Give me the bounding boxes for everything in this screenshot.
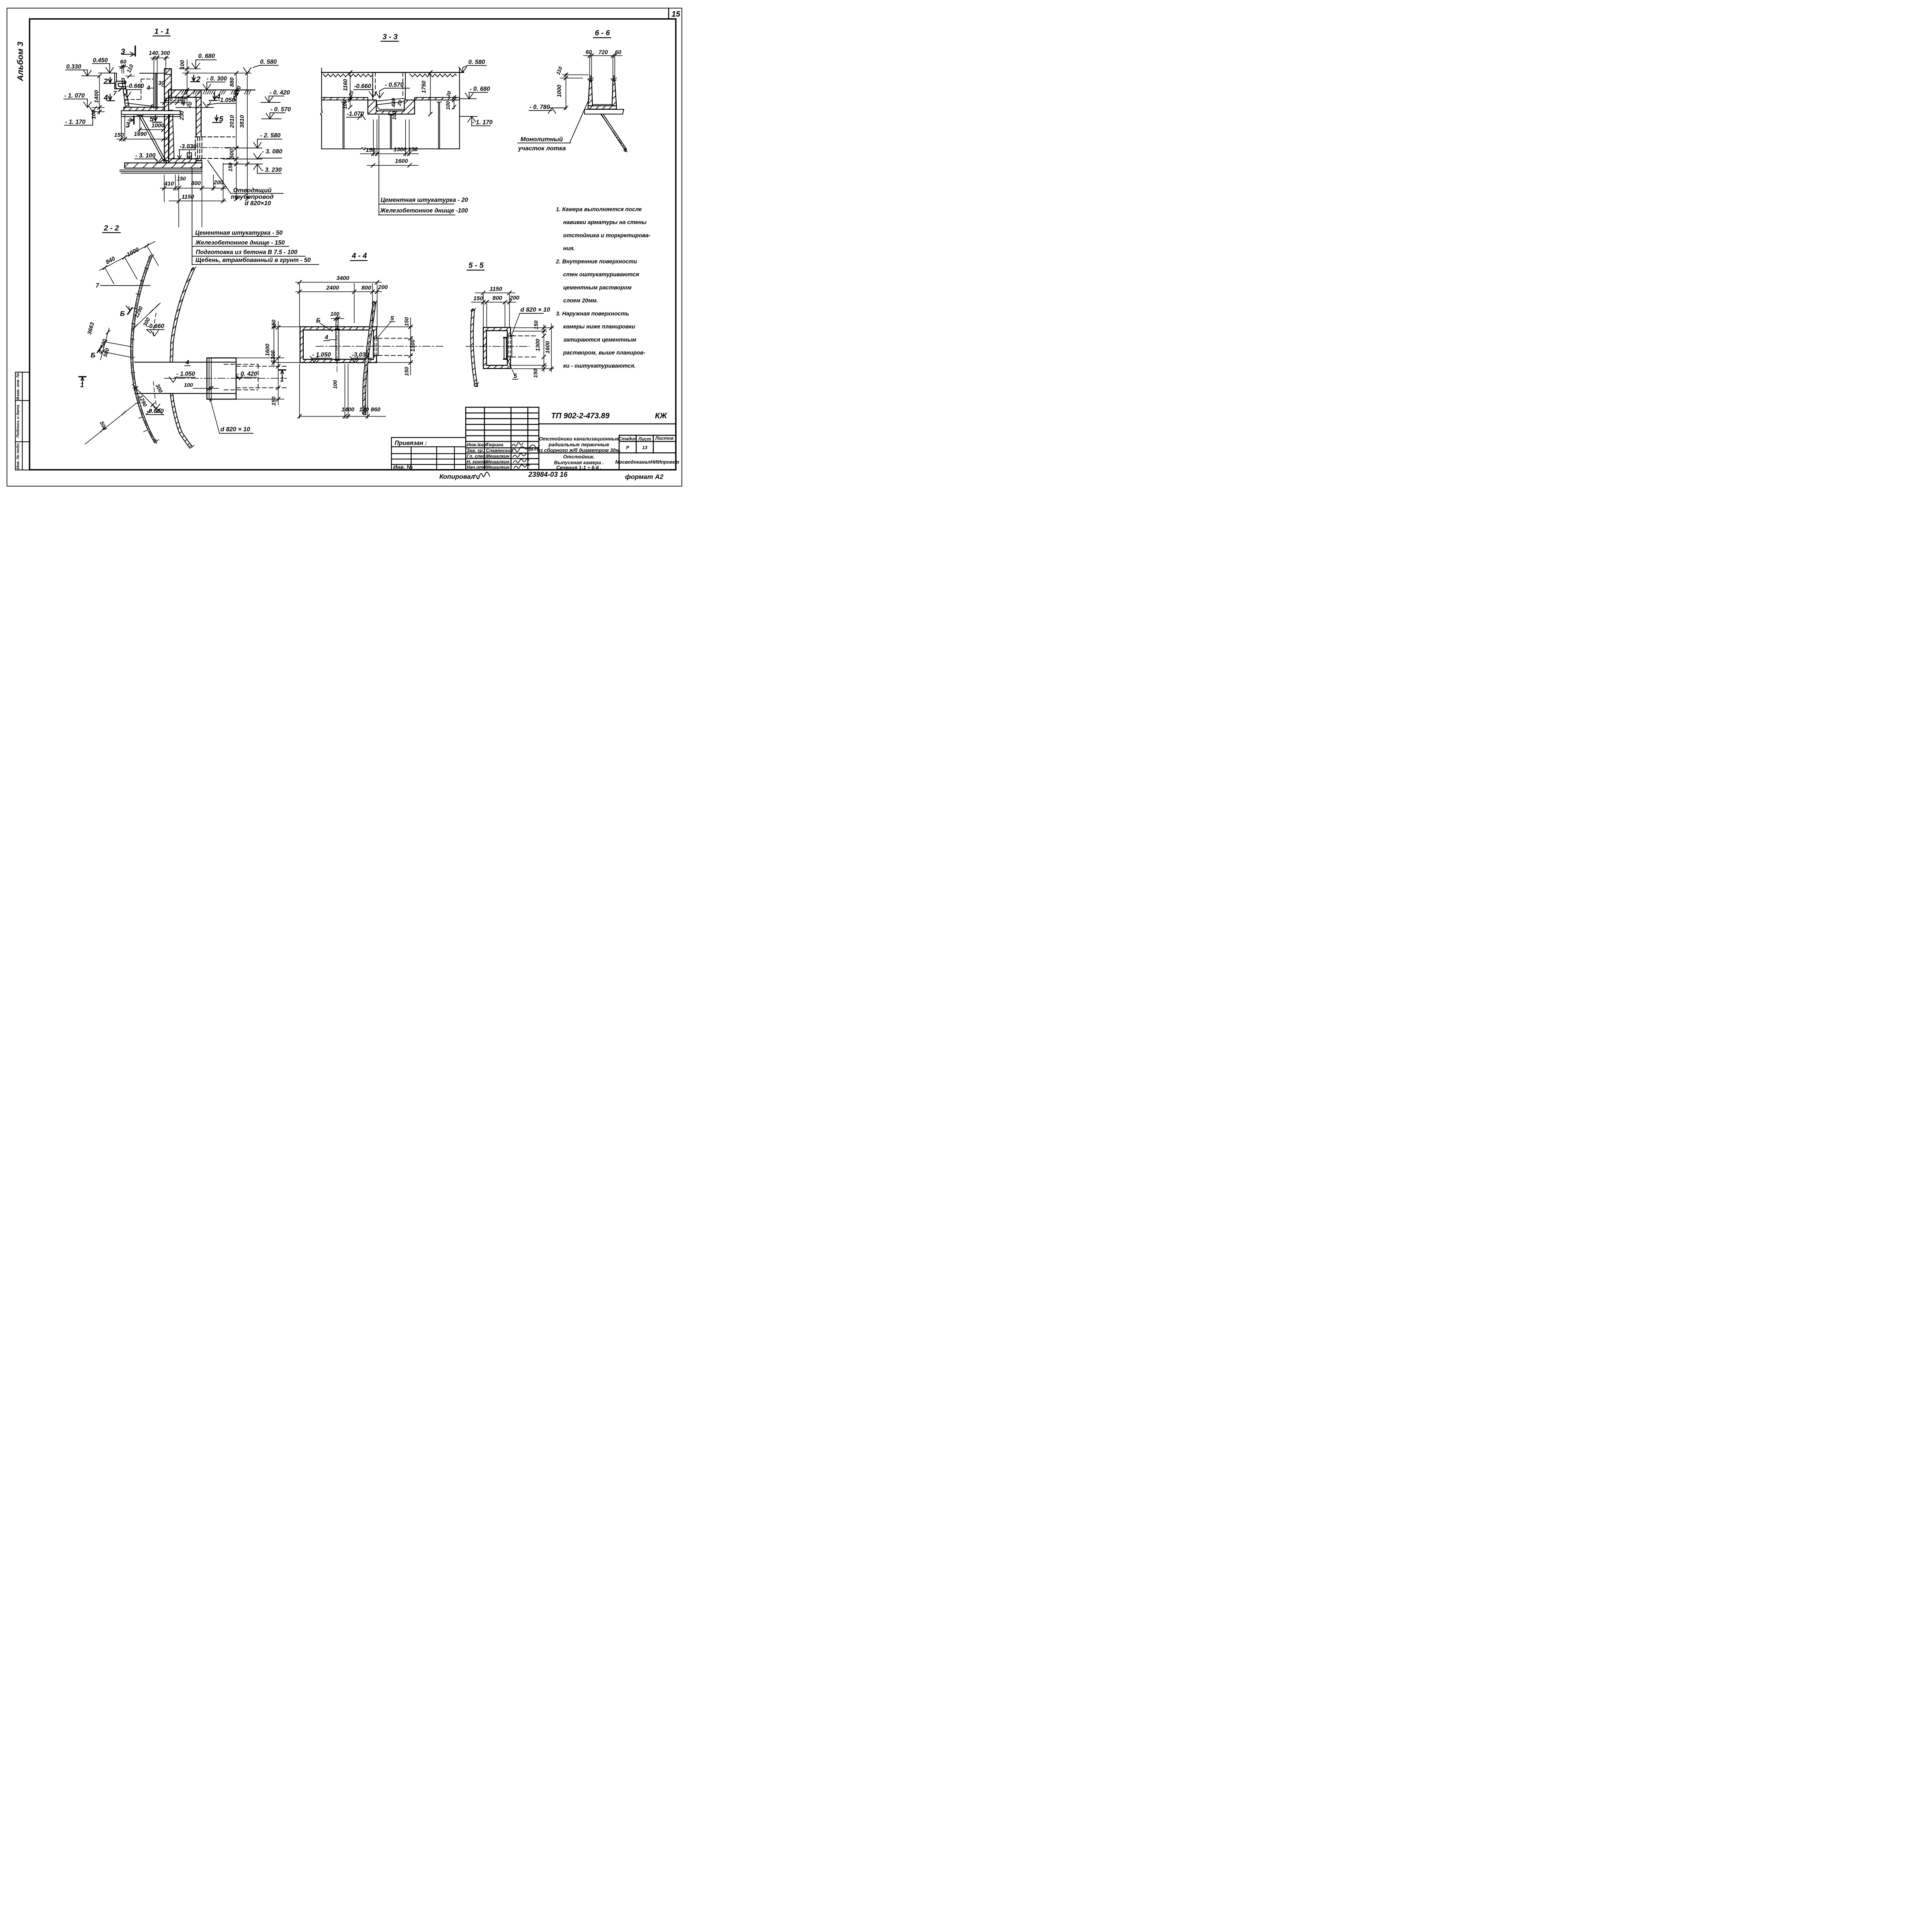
level -0.660 upper <box>147 323 165 336</box>
rebar pin right <box>437 102 442 149</box>
svg-text:d 820×10: d 820×10 <box>245 200 271 207</box>
svg-text:1600: 1600 <box>395 158 408 164</box>
svg-text:Выпускная камера .: Выпускная камера . <box>554 459 604 465</box>
marker 1 left <box>79 377 86 389</box>
level 0.450 <box>92 57 115 73</box>
dim 100 rot top <box>179 60 251 105</box>
svg-text:-0.660: -0.660 <box>147 323 164 330</box>
base slab (hatched) <box>125 163 202 168</box>
level -0.680 right <box>459 86 490 99</box>
marker 1 right <box>279 370 286 383</box>
box walls hatched ring <box>300 327 377 363</box>
svg-text:60: 60 <box>120 59 126 65</box>
base wedge seat <box>159 159 167 163</box>
svg-text:-0.660: -0.660 <box>354 83 371 90</box>
level -3.030 <box>178 143 197 159</box>
svg-text:6 - 6: 6 - 6 <box>595 29 610 37</box>
label 7 <box>96 282 150 289</box>
svg-text:1150: 1150 <box>182 194 194 200</box>
svg-text:2. Внутренние поверхности: 2. Внутренние поверхности <box>556 259 637 265</box>
chamber inner facing plate (hatched) <box>169 110 174 159</box>
svg-text:- 3. 100: - 3. 100 <box>135 153 156 159</box>
svg-text:140,: 140, <box>149 50 160 56</box>
curved pipe band hatched <box>363 302 376 415</box>
curved tank wall band <box>471 310 478 386</box>
notes 3-3 <box>380 197 468 214</box>
section 1-1 dimensions <box>64 46 291 227</box>
svg-text:150: 150 <box>408 146 418 153</box>
label монолитный участок лотка <box>518 136 566 152</box>
joint circle <box>151 105 154 107</box>
label -0.660 <box>123 83 144 98</box>
svg-text:3810: 3810 <box>239 115 245 128</box>
dim 1150 <box>475 286 515 295</box>
svg-text:100: 100 <box>391 111 397 120</box>
svg-text:-3.030: -3.030 <box>180 143 197 150</box>
sleeve right wall <box>374 338 378 356</box>
svg-text:100: 100 <box>445 101 451 110</box>
right edge line <box>458 68 461 149</box>
svg-text:- 0. 420: - 0. 420 <box>270 90 290 96</box>
channel inner profile <box>377 99 405 110</box>
d 820x10 label <box>511 307 550 337</box>
svg-text:860: 860 <box>371 406 381 413</box>
level -0.570 <box>262 106 291 119</box>
svg-text:880: 880 <box>229 77 235 87</box>
dim 110 rot <box>555 66 588 80</box>
right dim chain 1 <box>227 71 250 201</box>
svg-text:МосводоканалНИИпроект: МосводоканалНИИпроект <box>615 459 679 465</box>
pipe band break marks <box>362 301 377 413</box>
svg-text:Инж.Iкат: Инж.Iкат <box>467 442 488 447</box>
svg-text:Тюрина: Тюрина <box>486 442 504 447</box>
chamber left wall upper (hatched) <box>165 69 172 161</box>
floor slab hatched left <box>321 97 368 100</box>
svg-text:-3.030: -3.030 <box>352 352 369 358</box>
svg-text:Копировал :: Копировал : <box>439 473 479 480</box>
svg-text:3 - 3: 3 - 3 <box>383 32 398 41</box>
svg-text:слоем 20мм.: слоем 20мм. <box>563 298 598 304</box>
band A inner thin element (two curves) <box>131 256 157 443</box>
svg-text:Б: Б <box>91 351 95 359</box>
band A end breaks <box>149 255 159 442</box>
dim 500 lower-left <box>85 404 135 444</box>
bottom dims 1400 140 860 <box>298 364 386 419</box>
svg-text:отстойника и торкретиров: отстойника и торкретирова- <box>563 233 651 239</box>
chamber outer box <box>207 358 236 399</box>
section 6-6 drawing <box>518 76 628 152</box>
trench walls dashed faces <box>375 73 403 98</box>
level -3.080 <box>253 148 282 159</box>
level -0.660 <box>354 83 377 97</box>
svg-text:150: 150 <box>270 396 277 406</box>
pipe band center dashed <box>364 302 374 415</box>
staff table <box>466 407 539 470</box>
axis dash-dot <box>466 345 529 348</box>
svg-text:Отстойники канализационные: Отстойники канализационные <box>539 436 619 442</box>
dim 1600 <box>367 158 418 167</box>
svg-text:Славянский: Славянский <box>486 448 513 453</box>
level 0.330 <box>66 64 100 76</box>
band A cross ticks <box>131 268 148 432</box>
weir plate <box>115 73 117 89</box>
level -3.030 <box>350 352 372 362</box>
gate plate <box>504 338 507 359</box>
svg-text:- 3. 230: - 3. 230 <box>261 167 282 173</box>
level 0.680 <box>192 53 216 69</box>
svg-text:100: 100 <box>91 110 97 119</box>
screed line in chamber <box>176 106 214 109</box>
level -0.300 <box>203 75 227 90</box>
svg-text:1000: 1000 <box>556 85 563 97</box>
leader to notes <box>378 116 380 215</box>
svg-text:Б: Б <box>120 310 125 318</box>
svg-text:формат А2: формат А2 <box>625 473 664 481</box>
chamber top slab (hatched) <box>168 90 201 97</box>
svg-text:3400: 3400 <box>337 275 350 282</box>
gate plate <box>336 330 339 359</box>
marker Б bottom <box>91 346 103 359</box>
svg-text:ния.: ния. <box>563 246 575 252</box>
svg-text:2: 2 <box>196 75 201 83</box>
strut pad <box>137 114 143 116</box>
axis dash-dot <box>164 377 287 379</box>
level -1.070 <box>64 93 92 108</box>
svg-text:1600: 1600 <box>545 341 551 354</box>
screed line <box>592 103 612 106</box>
label 4 <box>185 359 190 366</box>
label 5 <box>507 358 518 379</box>
dim 20 rot right <box>445 90 456 110</box>
marker 4 center <box>209 92 221 101</box>
marker 5 left <box>150 115 162 124</box>
level -3.100 <box>135 153 162 163</box>
svg-text:- 0. 420: - 0. 420 <box>237 371 257 378</box>
tank floor slope line <box>126 103 153 107</box>
section titles <box>104 27 610 270</box>
notes right <box>556 206 651 369</box>
dim 60 <box>119 59 128 73</box>
rebar pin center <box>389 115 393 149</box>
right chain 150 1300 150 <box>236 320 284 406</box>
curved pipe band (white underlay) <box>363 302 376 415</box>
svg-text:Железобетонное днище - 150: Железобетонное днище - 150 <box>195 240 285 246</box>
svg-text:2400: 2400 <box>326 284 339 291</box>
svg-text:13: 13 <box>642 445 648 451</box>
svg-text:Привязан :: Привязан : <box>395 440 427 447</box>
level -0.420 <box>236 371 257 380</box>
level -0.420 <box>261 90 290 103</box>
svg-text:150: 150 <box>403 317 410 327</box>
wall top caps and pins <box>588 78 616 82</box>
svg-text:7: 7 <box>96 282 100 289</box>
dim 150 1300 150 <box>361 120 418 156</box>
svg-text:100: 100 <box>342 100 348 109</box>
svg-text:Н. контр.: Н. контр. <box>467 459 488 464</box>
torkret dashed boundary <box>126 79 154 100</box>
dim 500 500 upper-left <box>99 328 132 360</box>
stop log plates <box>154 73 157 109</box>
svg-text:цементным раствором: цементным раствором <box>563 285 632 291</box>
svg-text:150: 150 <box>177 176 186 182</box>
svg-text:Щебень, втрамбованный в грун: Щебень, втрамбованный в грунт - 50 <box>196 257 311 264</box>
svg-text:d 820 × 10: d 820 × 10 <box>520 307 550 313</box>
svg-text:1. Камера выполняется после: 1. Камера выполняется после <box>556 206 642 213</box>
bottom dims 410 150 800 200 <box>160 160 226 227</box>
right channel wall (hatched) <box>612 80 616 106</box>
level -1.170 <box>65 106 97 125</box>
svg-text:150: 150 <box>270 320 277 329</box>
svg-text:4: 4 <box>185 359 189 366</box>
water zigzag left <box>323 74 372 77</box>
svg-text:200: 200 <box>378 284 388 291</box>
svg-text:- 1. 070: - 1. 070 <box>65 93 85 99</box>
left channel wall (hatched) <box>588 80 592 106</box>
svg-text:1160: 1160 <box>343 79 349 91</box>
svg-text:1150: 1150 <box>490 286 502 293</box>
label 4 <box>324 334 335 341</box>
marker 2 left <box>103 77 114 86</box>
dim 3400 <box>296 275 382 285</box>
svg-text:Цементная штукатурка - 20: Цементная штукатурка - 20 <box>381 197 468 204</box>
d 820x10 label <box>210 399 253 434</box>
svg-text:раствором, выше планиров-: раствором, выше планиров- <box>563 350 646 356</box>
dim 330 230 <box>160 97 187 105</box>
bottom break line <box>321 148 459 150</box>
svg-text:- 1.050: - 1.050 <box>312 352 331 358</box>
svg-text:0. 680: 0. 680 <box>198 53 215 60</box>
svg-text:4 - 4: 4 - 4 <box>352 252 367 260</box>
svg-text:1000: 1000 <box>151 122 165 129</box>
ground line <box>172 88 255 92</box>
svg-text:150: 150 <box>473 295 483 302</box>
svg-text:Подпись и дата: Подпись и дата <box>16 405 20 437</box>
axis dash-dot <box>316 345 443 347</box>
left chain 1600 <box>265 323 300 367</box>
dim 110 rot <box>125 63 134 78</box>
svg-text:- 1. 170: - 1. 170 <box>472 119 493 126</box>
level -1.050 <box>169 371 196 383</box>
dim 1400 rot <box>92 74 105 114</box>
svg-text:Гл. спец.: Гл. спец. <box>467 454 487 459</box>
floor pocket <box>187 153 192 159</box>
inclined tank wall (hatched) <box>122 78 129 107</box>
svg-text:100: 100 <box>184 382 193 388</box>
dim 1160 rot <box>343 70 352 109</box>
joint double vertical <box>209 359 211 399</box>
svg-text:Инв. № подл.: Инв. № подл. <box>16 442 20 469</box>
svg-text:Р: Р <box>626 445 629 451</box>
dim 1750 rot <box>421 70 433 116</box>
marker 3 bottom <box>126 116 134 129</box>
svg-text:1600: 1600 <box>265 344 271 356</box>
right part of title block <box>539 424 676 470</box>
svg-text:-0.660: -0.660 <box>127 83 144 89</box>
svg-text:1400: 1400 <box>94 90 100 103</box>
rebar pin left <box>342 102 346 149</box>
title block <box>391 407 679 471</box>
dashed shotcrete curves <box>153 313 157 409</box>
marker Б top <box>120 306 133 317</box>
band break marks <box>471 308 479 386</box>
section 2-2 drawing <box>131 255 287 449</box>
svg-text:Мешалкин: Мешалкин <box>486 454 510 459</box>
svg-text:Лист: Лист <box>638 436 651 442</box>
dim 1150 <box>169 194 226 203</box>
signatures in staff table <box>512 443 540 468</box>
band A center dash-dot <box>132 257 156 443</box>
svg-text:800: 800 <box>191 180 201 187</box>
svg-text:30: 30 <box>158 80 165 87</box>
svg-text:100: 100 <box>179 60 185 69</box>
dim 1290 300 upper <box>131 303 160 330</box>
svg-text:Инв. №: Инв. № <box>393 464 413 470</box>
svg-text:Альбом 3: Альбом 3 <box>15 42 25 82</box>
level -0.780 <box>529 104 566 114</box>
level -3.230 <box>253 164 282 173</box>
sheet number cell divider <box>667 8 671 19</box>
outer thin border <box>7 8 682 486</box>
bracket channel 7 <box>116 81 126 89</box>
svg-text:Монолитный: Монолитный <box>520 136 563 143</box>
svg-text:Стадия: Стадия <box>618 436 637 441</box>
sleeve <box>507 336 512 357</box>
svg-text:участок лотка: участок лотка <box>518 145 566 152</box>
level lines right <box>223 148 263 164</box>
tank top edge line <box>140 72 164 75</box>
level -1.050 <box>203 97 236 108</box>
dim 2400 800 200 <box>296 284 388 327</box>
svg-text:Взам. инв. №: Взам. инв. № <box>16 373 20 400</box>
svg-text:23984-03 16: 23984-03 16 <box>528 471 568 478</box>
svg-text:ТП 902-2-473.89: ТП 902-2-473.89 <box>551 412 610 420</box>
svg-text:радиальные первичные: радиальные первичные <box>548 442 609 447</box>
label 5 <box>378 315 395 337</box>
strut diagonal <box>139 116 167 163</box>
outlet pipe label <box>208 161 283 207</box>
svg-text:Отводящий: Отводящий <box>233 187 272 194</box>
section 5-5 drawing <box>466 308 537 387</box>
svg-text:- 0.570: - 0.570 <box>385 82 404 88</box>
svg-text:410: 410 <box>164 180 174 187</box>
svg-text:Листов: Листов <box>655 435 673 441</box>
section 5-5 dimensions <box>471 286 554 380</box>
dim 1290 300 lower <box>132 383 164 415</box>
svg-text:КЖ: КЖ <box>655 412 667 420</box>
svg-text:480: 480 <box>390 98 396 108</box>
svg-text:Железобетонное днище -1: Железобетонное днище -100 <box>380 207 468 214</box>
svg-text:Зав. гр.: Зав. гр. <box>467 448 484 453</box>
marker 2 center <box>190 75 201 83</box>
svg-text:1690: 1690 <box>134 131 147 137</box>
svg-text:из сборного ж/б диаметром 30м: из сборного ж/б диаметром 30м. <box>537 447 621 453</box>
left attribute column <box>15 372 29 470</box>
svg-text:Подготовка из бетона В 7.5: Подготовка из бетона В 7.5 - 100 <box>196 249 298 256</box>
svg-text:0. 580: 0. 580 <box>468 59 485 66</box>
svg-text:Мешалкин: Мешалкин <box>486 459 510 464</box>
svg-text:- 1.050: - 1.050 <box>177 371 196 378</box>
svg-text:- 2. 580: - 2. 580 <box>260 133 281 139</box>
svg-text:- 0. 570: - 0. 570 <box>270 106 291 113</box>
svg-text:5 - 5: 5 - 5 <box>469 261 484 270</box>
svg-text:- 0. 680: - 0. 680 <box>470 86 490 92</box>
marker 5 center <box>213 115 224 124</box>
box walls hatched ring <box>483 328 511 369</box>
level -0.660 lower <box>146 404 164 415</box>
leader монолитный <box>570 99 590 143</box>
svg-text:- 0. 780: - 0. 780 <box>529 104 550 111</box>
level -1.050 <box>310 352 332 362</box>
trench wall edges <box>373 73 406 100</box>
pipe axis dash-dot <box>189 146 239 149</box>
svg-text:100: 100 <box>330 311 340 317</box>
svg-text:- 0. 300: - 0. 300 <box>207 75 227 82</box>
right chains <box>510 320 553 378</box>
section 6-6 dimensions <box>529 49 622 114</box>
svg-text:800: 800 <box>362 284 372 291</box>
dim 840 1000 diagonal <box>100 241 159 284</box>
support slab <box>585 109 624 114</box>
svg-text:500: 500 <box>229 149 235 158</box>
dim 100 joint <box>184 382 218 391</box>
svg-text:1300: 1300 <box>394 146 407 153</box>
centerline vertical dash-dot <box>336 314 338 373</box>
dim 60 720 60 <box>583 49 622 78</box>
marker 4 left <box>104 94 115 102</box>
section 3-3 dimensions <box>342 59 493 216</box>
ground hatch marks <box>182 90 251 94</box>
label 6 <box>316 318 333 332</box>
svg-text:- 3. 080: - 3. 080 <box>262 148 282 155</box>
underbase layers <box>120 170 202 173</box>
tank slab below floor <box>121 111 180 117</box>
svg-text:230: 230 <box>179 111 185 121</box>
band B tank wall upper (hatched) <box>170 269 194 362</box>
svg-text:- 1. 170: - 1. 170 <box>65 119 86 126</box>
section 4-4 dimensions <box>265 275 416 419</box>
dim 150 800 200 <box>471 294 520 327</box>
svg-text:4: 4 <box>325 334 328 341</box>
level 0.580 <box>243 59 279 73</box>
main thick frame <box>30 19 676 470</box>
level -1.070 <box>347 111 366 120</box>
pipe dashed lines right <box>236 366 287 388</box>
svg-text:2010: 2010 <box>229 115 235 128</box>
strut diagonal <box>600 114 628 152</box>
dashed future rect <box>224 364 258 390</box>
svg-text:ки - оштукатуриваются.: ки - оштукатуриваются. <box>563 363 636 369</box>
marker 3 top <box>121 46 136 57</box>
svg-text:150: 150 <box>532 369 539 378</box>
svg-text:1300: 1300 <box>410 339 416 352</box>
svg-text:затираются цементным: затираются цементным <box>563 337 636 343</box>
outlet pipe sleeve (dashed) <box>196 137 235 158</box>
section 3-3 drawing <box>320 68 464 150</box>
band B tank wall lower (hatched) <box>170 393 192 448</box>
dashed pipe lines right <box>378 338 413 356</box>
svg-text:1750: 1750 <box>421 81 427 93</box>
dashed pipe lines right <box>512 336 537 357</box>
svg-text:Отстойник.: Отстойник. <box>563 454 595 459</box>
svg-text:2 - 2: 2 - 2 <box>104 224 119 232</box>
chamber right wall (hatched) <box>196 97 201 161</box>
svg-text:300: 300 <box>161 50 170 56</box>
chamber inner horizontals <box>134 362 236 393</box>
label 30 <box>158 80 165 87</box>
small left table Привязан <box>391 437 466 470</box>
svg-text:1300: 1300 <box>270 350 277 363</box>
svg-text:5: 5 <box>391 315 395 322</box>
